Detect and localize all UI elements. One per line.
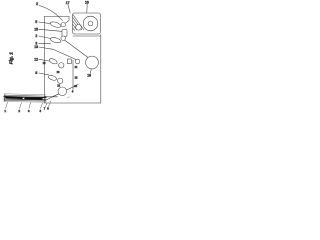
- svg-text:13: 13: [34, 45, 38, 49]
- leader label 5: [39, 22, 51, 24]
- feed pair P2 end cap: [58, 78, 63, 83]
- scanner roller E1: [50, 21, 62, 29]
- svg-text:16: 16: [85, 0, 89, 4]
- housing bottom edge: [45, 102, 101, 104]
- scan head rect R1: [62, 30, 67, 37]
- leader label 3: [39, 42, 51, 45]
- leader label 13: [39, 47, 76, 60]
- link endcap to slot: [65, 21, 69, 24]
- paper stack dark band: [4, 97, 46, 98]
- roller end cap E1: [61, 23, 65, 27]
- svg-text:2: 2: [35, 34, 37, 38]
- roll compartment box: [73, 13, 101, 34]
- svg-text:3: 3: [28, 109, 30, 113]
- output wedge line: [52, 93, 61, 97]
- leader bottom 8: [48, 101, 51, 107]
- paper roll core: [88, 21, 93, 26]
- svg-text:Fig. 1: Fig. 1: [9, 52, 14, 64]
- svg-text:4: 4: [72, 90, 74, 94]
- svg-text:20: 20: [57, 70, 60, 74]
- tick near exit roller: [68, 96, 70, 99]
- svg-text:21: 21: [75, 65, 78, 69]
- feed pair P1 end cap: [59, 63, 64, 68]
- leader bottom 2: [20, 103, 22, 109]
- leader bottom 4: [41, 103, 43, 109]
- leader bottom 3: [29, 103, 31, 109]
- leader for label 2: [39, 6, 63, 21]
- svg-text:2: 2: [18, 109, 20, 113]
- hatch lines: [73, 18, 82, 30]
- hatch wedge hypotenuse: [73, 15, 84, 31]
- svg-text:2: 2: [36, 2, 38, 6]
- paper stack line6: [4, 101, 46, 104]
- leader for label 16: [86, 4, 88, 13]
- housing left wall: [44, 17, 46, 104]
- svg-text:19: 19: [87, 74, 91, 78]
- pinch roller at platen: [75, 59, 80, 64]
- leader label 2b: [39, 36, 51, 39]
- svg-text:8: 8: [35, 71, 37, 75]
- feed pair P2 roller: [48, 74, 58, 81]
- paper roll: [83, 16, 98, 31]
- leader label 12: [39, 59, 50, 61]
- housing top edge: [44, 16, 69, 18]
- paper stack left cap: [3, 94, 6, 101]
- housing right wall: [100, 35, 102, 104]
- leader for label 17: [68, 5, 70, 13]
- svg-text:7: 7: [44, 107, 46, 111]
- roll compartment inner bottom line: [73, 35, 101, 37]
- leader bottom 1: [6, 102, 8, 108]
- feed pair P1 roller: [48, 58, 58, 65]
- leader label 15: [39, 29, 62, 31]
- leader label 8: [39, 73, 49, 75]
- exit roller C3: [58, 87, 67, 96]
- cutter rect R2: [68, 59, 72, 64]
- feed roller in roll box: [76, 25, 82, 31]
- paper stack line2: [4, 95, 46, 96]
- paper stack line1: [4, 94, 46, 95]
- output guide diagonal: [45, 85, 79, 101]
- svg-text:15: 15: [43, 61, 46, 65]
- paper stack line4: [4, 98, 46, 101]
- paper stack blob1: [6, 96, 22, 99]
- svg-text:1: 1: [4, 109, 6, 113]
- roller end cap E2: [61, 36, 65, 40]
- leader label 19: [90, 69, 91, 73]
- paper stack line5: [4, 99, 46, 102]
- document slot wall: [68, 17, 70, 21]
- svg-text:12: 12: [34, 57, 38, 61]
- svg-text:17: 17: [66, 1, 70, 5]
- paper stack blob2: [25, 97, 42, 100]
- scanner roller E2: [50, 37, 62, 44]
- leader bottom 7: [46, 103, 48, 107]
- svg-text:8: 8: [47, 107, 49, 111]
- svg-text:22: 22: [57, 83, 60, 87]
- svg-text:4: 4: [39, 109, 41, 113]
- svg-text:5: 5: [35, 20, 37, 24]
- svg-text:23: 23: [75, 75, 78, 79]
- tray top line: [45, 96, 58, 98]
- svg-text:15: 15: [34, 27, 38, 31]
- paper path upper: [65, 40, 89, 58]
- platen drum: [86, 56, 99, 69]
- inner wall V2: [72, 60, 74, 92]
